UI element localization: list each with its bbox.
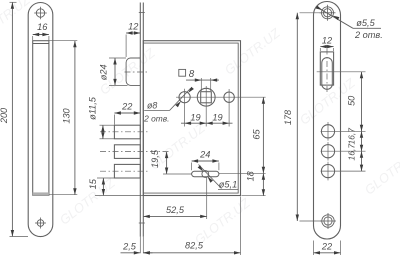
latch bolt edge view: [126, 58, 140, 85]
svg-text:8: 8: [189, 69, 195, 80]
svg-text:22: 22: [321, 242, 332, 252]
dim diam 11.5 deadbolt bar: [102, 125, 104, 139]
lock body inner edge: [143, 43, 238, 193]
right plate outline: [314, 2, 341, 240]
left plate outline: [28, 3, 53, 237]
svg-text:16,7: 16,7: [347, 143, 357, 161]
svg-text:200: 200: [0, 107, 9, 124]
dim 22 deadbolt length: [114, 112, 140, 114]
dim 16 slot width: [33, 34, 49, 36]
svg-text:50: 50: [346, 95, 356, 106]
svg-text:82,5: 82,5: [185, 240, 204, 250]
dim 16.7 upper hole spacing: [361, 131, 363, 151]
svg-text:ø8: ø8: [147, 100, 157, 110]
svg-text:130: 130: [62, 107, 72, 123]
svg-text:18: 18: [246, 170, 256, 181]
dim 178 screw hole spacing: [296, 13, 298, 221]
dim 15 bottom bar offset: [102, 178, 104, 196]
svg-text:12: 12: [322, 35, 332, 45]
deadbolt bar 3: [114, 164, 140, 178]
svg-text:12: 12: [128, 22, 138, 32]
right plate top screw hole: [323, 9, 331, 17]
leader diam 5.5 2 holes: [317, 7, 353, 28]
svg-text:22: 22: [121, 102, 132, 112]
dim 2.5 faceplate thickness: [121, 252, 141, 254]
leader diam 5.1: [199, 165, 222, 189]
deadbolt hole 3: [321, 165, 334, 178]
dim 19.5 slot position: [166, 152, 168, 174]
svg-text:52,5: 52,5: [166, 205, 185, 215]
dim 24 slot length: [192, 160, 219, 162]
key hole left diam 8: [179, 92, 190, 103]
dim 16.7 lower hole spacing: [361, 151, 363, 171]
deadbolt bar 2: [114, 145, 140, 159]
left plate slot: [33, 41, 49, 196]
svg-text:2 отв.: 2 отв.: [143, 113, 169, 123]
dim 12 latch opening: [320, 46, 333, 48]
svg-text:16: 16: [37, 22, 48, 32]
dim square 8 follower: [179, 69, 186, 76]
dim 52.5 slot horizontal position: [143, 215, 206, 217]
svg-text:ø5,5: ø5,5: [356, 18, 375, 28]
svg-text:2,5: 2,5: [122, 242, 137, 252]
svg-text:15: 15: [88, 178, 98, 189]
latch centerlines: [326, 49, 328, 95]
deadbolt hole 1: [321, 125, 334, 138]
dim 22 right plate width: [314, 252, 341, 254]
dim diam 24 latch bolt: [114, 58, 116, 85]
dim 82.5 body depth: [143, 252, 240, 254]
latch bolt centerline: [125, 71, 148, 73]
dim 130 slot height: [74, 41, 76, 195]
faceplate edge view: [139, 3, 141, 237]
left plate bottom screw hole: [37, 220, 44, 227]
svg-text:19: 19: [212, 113, 222, 123]
svg-text:178: 178: [283, 109, 293, 125]
latch opening: [320, 52, 333, 85]
deadbolt bar 1: [114, 125, 140, 139]
left plate top screw hole: [36, 9, 44, 17]
svg-text:19,5: 19,5: [150, 149, 160, 168]
follower square hole: [197, 88, 215, 106]
svg-text:19: 19: [190, 113, 200, 123]
svg-text:ø11,5: ø11,5: [87, 96, 97, 120]
dim 19 19 hole spacing: [181, 122, 233, 124]
deadbolt hole 2: [321, 145, 334, 158]
latch bolt front view: [322, 58, 333, 90]
svg-text:ø5,1: ø5,1: [219, 180, 237, 190]
svg-text:2 отв.: 2 отв.: [354, 30, 383, 40]
right plate bottom screw hole: [324, 217, 332, 225]
svg-text:ø24: ø24: [99, 64, 109, 80]
dim 18 bottom offset: [262, 173, 264, 195]
dim 200 overall height: [11, 2, 13, 236]
svg-text:16,7: 16,7: [347, 127, 357, 145]
slotted hole diam 5.1: [192, 171, 219, 176]
lock body outline: [143, 41, 240, 196]
svg-text:65: 65: [251, 129, 261, 140]
svg-text:24: 24: [199, 150, 210, 160]
key hole right diam 8: [224, 92, 234, 102]
dim 65 slot vertical position: [262, 97, 264, 173]
dim 50 latch to hole: [361, 72, 363, 132]
dim 12 latch protrusion: [126, 32, 140, 34]
